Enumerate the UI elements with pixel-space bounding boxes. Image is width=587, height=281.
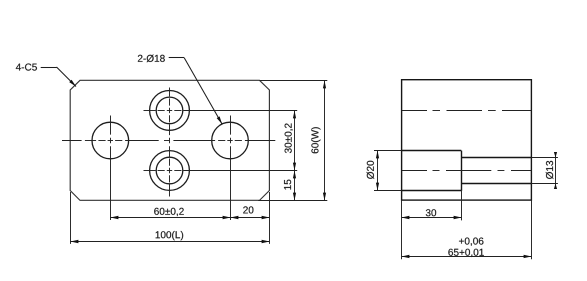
leader 4-C5	[41, 67, 57, 69]
extension line right edge down	[531, 200, 533, 259]
horizontal centerline main (through Ø18 holes)	[62, 140, 82, 142]
label 4-C5	[16, 64, 37, 71]
dimension line 20	[230, 217, 269, 219]
extension line left edge down (30/65)	[401, 200, 403, 259]
label 2-Ø18	[138, 55, 165, 63]
extension line left edge down	[70, 192, 72, 244]
vertical centerline counterbore holes	[169, 88, 171, 97]
extension line right edge down	[269, 192, 271, 244]
value label 15	[284, 180, 291, 190]
value label Ø20	[367, 161, 375, 179]
dimension line 60(W) vertical	[324, 80, 326, 200]
counterbore hole top outer Ø20	[150, 91, 190, 131]
centerline lower hole	[402, 170, 427, 172]
value label 60±0,2	[154, 208, 184, 216]
dimension line 30	[402, 217, 462, 219]
plate outline (front view, chamfered corners)	[70, 80, 269, 200]
counterbore hole bottom inner Ø13	[156, 157, 183, 184]
hole left Ø18	[92, 122, 129, 159]
dimension line 30±0,2 vertical	[294, 110, 296, 170]
extension line top edge right	[260, 80, 328, 82]
counterbore hole bottom outer Ø20	[150, 151, 190, 191]
hole right Ø18	[212, 122, 249, 159]
Ø13 hole top edge	[461, 157, 531, 159]
extension line bottom edge right	[258, 200, 327, 202]
extension lines Ø20	[374, 150, 402, 152]
horizontal centerline bottom counterbore	[144, 170, 156, 172]
value label 60(W)	[311, 127, 320, 153]
counterbore step face	[461, 151, 463, 191]
extension lines Ø13	[531, 157, 558, 159]
Ø13 hole bottom edge	[461, 183, 531, 185]
value label 100(L)	[156, 231, 184, 240]
value label 30	[426, 209, 436, 216]
counterbore Ø20 top edge	[402, 150, 462, 152]
vertical centerline left hole / extension	[110, 116, 112, 135]
value label Ø13	[546, 161, 554, 179]
dimension line Ø20	[377, 151, 379, 191]
counterbore hole top inner Ø13	[156, 97, 183, 124]
dimension line 15 vertical	[294, 171, 296, 201]
value label 30±0,2	[285, 123, 293, 153]
counterbore Ø20 bottom edge	[402, 190, 462, 192]
dimension line 65	[402, 256, 532, 258]
dimension line 100(L)	[70, 241, 269, 243]
centerline upper hole row	[402, 110, 427, 112]
side view body rectangle	[402, 80, 532, 200]
dimension line 60±0,2	[110, 217, 230, 219]
horizontal centerline top counterbore	[144, 110, 156, 112]
dimension text 65+0,01	[448, 249, 483, 257]
extension line counterbore depth down	[461, 191, 463, 221]
vertical centerline right hole / extension	[230, 116, 232, 135]
value label 20	[243, 206, 253, 213]
tolerance text +0,06	[459, 238, 483, 246]
dimension line Ø13 (outside arrows)	[555, 153, 557, 188]
leader 2-Ø18	[169, 57, 185, 59]
